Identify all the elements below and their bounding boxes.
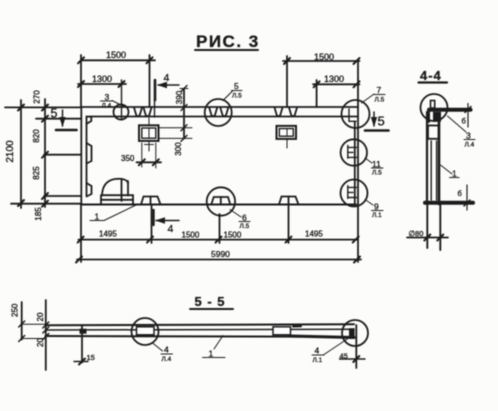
svg-text:1500: 1500: [224, 231, 242, 240]
svg-text:4: 4: [168, 223, 174, 235]
svg-text:б: б: [458, 189, 462, 198]
svg-text:Л.5: Л.5: [372, 170, 382, 177]
svg-text:Л.4: Л.4: [465, 142, 475, 149]
svg-text:Л.4: Л.4: [162, 356, 172, 363]
svg-text:20: 20: [36, 338, 45, 347]
svg-text:5 - 5: 5 - 5: [195, 294, 226, 309]
svg-text:300: 300: [174, 142, 183, 156]
svg-text:5: 5: [234, 81, 239, 91]
svg-text:825: 825: [32, 166, 41, 180]
svg-text:185: 185: [34, 207, 43, 221]
svg-text:350: 350: [121, 154, 135, 163]
svg-text:1500: 1500: [106, 50, 126, 60]
svg-text:Л.1: Л.1: [372, 212, 382, 219]
svg-text:5990: 5990: [211, 249, 230, 259]
svg-text:2100: 2100: [5, 140, 16, 163]
svg-text:5: 5: [51, 107, 58, 121]
svg-text:4: 4: [164, 72, 170, 84]
svg-text:390: 390: [175, 90, 184, 104]
svg-text:45: 45: [340, 352, 348, 361]
svg-text:4-4: 4-4: [420, 68, 442, 83]
svg-text:1300: 1300: [92, 74, 112, 84]
svg-text:Л.5: Л.5: [375, 97, 385, 104]
svg-text:Л.5: Л.5: [240, 223, 250, 230]
svg-text:1500: 1500: [182, 231, 200, 240]
svg-text:4: 4: [315, 346, 320, 356]
svg-text:1495: 1495: [305, 230, 323, 239]
svg-text:∅80: ∅80: [409, 229, 424, 238]
svg-text:Л.1: Л.1: [313, 357, 323, 364]
svg-text:250: 250: [11, 303, 20, 317]
svg-text:Л.5: Л.5: [232, 93, 242, 100]
svg-text:15: 15: [87, 353, 95, 362]
svg-text:Л.4: Л.4: [102, 103, 112, 110]
svg-text:5: 5: [378, 114, 385, 129]
svg-text:20: 20: [36, 312, 45, 321]
svg-text:7: 7: [377, 85, 382, 95]
svg-text:270: 270: [33, 90, 42, 104]
svg-text:820: 820: [32, 129, 41, 143]
svg-text:РИС. 3: РИС. 3: [196, 32, 260, 51]
svg-text:1500: 1500: [314, 52, 334, 62]
svg-text:4: 4: [164, 345, 169, 355]
svg-text:1300: 1300: [324, 74, 344, 84]
svg-text:1495: 1495: [99, 230, 117, 239]
svg-text:б: б: [462, 117, 466, 126]
